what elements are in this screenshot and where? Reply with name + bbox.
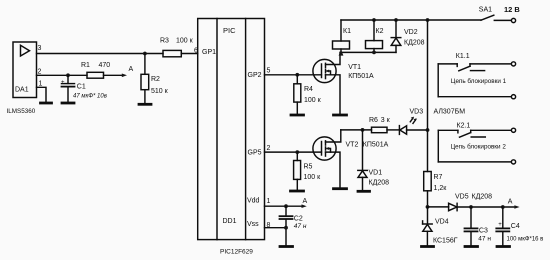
ground C3 (465, 245, 478, 248)
svg-text:C2: C2 (294, 215, 303, 222)
capacitor C1 (61, 75, 75, 101)
node C1 junction (66, 73, 70, 77)
svg-text:R6: R6 (369, 117, 378, 124)
svg-text:1: 1 (39, 80, 43, 87)
node regulator (426, 205, 430, 209)
svg-text:1: 1 (267, 198, 271, 205)
resistor R3 (163, 50, 181, 56)
svg-text:PIC12F629: PIC12F629 (220, 248, 253, 255)
node K2 bottom (372, 51, 376, 55)
svg-text:510 к: 510 к (151, 88, 169, 95)
svg-text:VT2: VT2 (346, 142, 359, 149)
resistor R5 (294, 152, 301, 190)
transistor VT2 (313, 130, 341, 188)
svg-text:R4: R4 (304, 86, 313, 93)
node C3 (469, 205, 473, 209)
label C2 47n (294, 215, 307, 230)
label C1 value (73, 84, 107, 100)
svg-text:47 мкФ* 10в: 47 мкФ* 10в (73, 93, 107, 99)
drain node arrow up (339, 50, 344, 56)
svg-text:R2: R2 (151, 76, 160, 83)
svg-text:АЛ307БМ: АЛ307БМ (434, 109, 466, 116)
ground VT1 source (334, 114, 347, 117)
transistor VT1 (313, 52, 340, 114)
ground VD1 (358, 190, 370, 193)
svg-text:R3: R3 (160, 37, 169, 44)
diode VD1 (358, 130, 368, 190)
label VT1 KP501A (348, 64, 374, 80)
ground VD4 (422, 245, 434, 248)
svg-text:Vss: Vss (247, 221, 259, 228)
node R4 junction (295, 73, 299, 77)
svg-text:12 В: 12 В (504, 5, 520, 14)
label VD1 KD208 (369, 170, 390, 187)
svg-text:3: 3 (38, 45, 42, 52)
wire Vdd to node A arrow (265, 205, 303, 207)
svg-text:100 к: 100 к (304, 97, 322, 104)
ground R5 (291, 190, 304, 193)
op-amp DA1 IR receiver box (13, 42, 37, 98)
label R4 100k (304, 86, 322, 104)
label R3 100k (160, 37, 194, 44)
switch SA1 (481, 15, 516, 22)
wire K2.1 left side (437, 130, 439, 162)
label C3 47n (478, 228, 491, 243)
label R7 1.2k (434, 174, 448, 192)
ground C1 (62, 102, 74, 105)
wire K2.1 bottom (438, 161, 511, 163)
wire 12V branch vertical (427, 20, 429, 172)
svg-text:R5: R5 (304, 164, 313, 171)
svg-text:VD5: VD5 (455, 193, 469, 200)
svg-text:+: + (498, 222, 502, 228)
node VD1 junction (361, 128, 365, 132)
svg-text:100 к: 100 к (304, 174, 322, 181)
node R5 junction (295, 150, 299, 154)
svg-text:2: 2 (267, 145, 271, 152)
svg-text:100 мкФ*16 в: 100 мкФ*16 в (507, 236, 544, 242)
capacitor C2 (280, 206, 293, 246)
svg-text:КП501А: КП501А (348, 73, 374, 80)
relay coil K1 (333, 20, 350, 52)
node VD3 to 12V branch (426, 128, 430, 132)
svg-text:КП501А: КП501А (363, 142, 389, 149)
resistor R4 (294, 75, 301, 114)
svg-text:КС156Г: КС156Г (433, 238, 458, 245)
node C4 (501, 205, 505, 209)
label VT2 KP501A (346, 142, 389, 149)
label VD2 KD208 (404, 29, 425, 47)
terminal K1.1 top (511, 62, 515, 66)
label R5 100k (304, 164, 322, 182)
node 12V branch (426, 18, 430, 22)
svg-text:100 к: 100 к (176, 37, 194, 44)
resistor R6 (372, 127, 388, 133)
contact K1.1 (438, 64, 511, 71)
ground R2 (139, 103, 151, 106)
wire relay bottom rail (341, 51, 396, 53)
wire GP2 to VT1 gate (265, 74, 322, 76)
ground R4 (291, 114, 304, 117)
svg-text:КД208: КД208 (369, 180, 390, 187)
svg-text:VD3: VD3 (410, 109, 424, 116)
label C4 value (507, 223, 544, 243)
svg-text:Цепь блокировки 1: Цепь блокировки 1 (451, 77, 507, 85)
ground VT2 source (334, 187, 347, 190)
svg-text:К1.1: К1.1 (456, 53, 470, 60)
node C2 top (284, 204, 288, 208)
svg-text:Цепь блокировки 2: Цепь блокировки 2 (451, 143, 507, 151)
wire R3 to PIC pin6 (181, 53, 197, 55)
svg-text:A: A (508, 198, 513, 205)
node A arrow left (122, 74, 127, 78)
svg-text:DA1: DA1 (15, 87, 29, 94)
svg-text:2: 2 (38, 69, 42, 76)
wire GP5 to VT2 gate (265, 151, 322, 153)
relay coil K2 (366, 20, 383, 52)
node R2 junction (143, 52, 147, 56)
resistor R2 (141, 54, 149, 104)
capacitor C4 (496, 207, 509, 246)
wire K1.1 left side (437, 64, 439, 97)
svg-text:ILMS5360: ILMS5360 (7, 108, 36, 115)
IC DD1 PIC12F629 box (198, 19, 265, 240)
wire DA1 pin1 down (37, 87, 47, 102)
wire Vss to C2 (265, 227, 287, 229)
svg-text:R7: R7 (434, 174, 443, 181)
terminal K2.1 top (511, 128, 515, 132)
svg-text:1,2к: 1,2к (434, 185, 448, 192)
terminal K1.1 bottom (511, 95, 515, 99)
node A arrow Vdd (302, 204, 307, 208)
svg-text:К2: К2 (376, 28, 384, 35)
diode VD2 (391, 20, 401, 52)
svg-text:VT1: VT1 (348, 64, 361, 71)
node A arrow right (514, 205, 519, 209)
svg-text:47 н: 47 н (478, 236, 491, 243)
ground C4 (497, 245, 510, 248)
svg-text:GP2: GP2 (248, 72, 262, 79)
wire DA1 pin3 to R3 (37, 53, 164, 55)
wire K1.1 bottom (438, 96, 511, 98)
svg-text:VD1: VD1 (369, 170, 383, 177)
diode VD5 (428, 203, 516, 210)
svg-text:A: A (303, 198, 308, 205)
resistor R1 (87, 72, 104, 78)
svg-text:GP5: GP5 (248, 150, 262, 157)
svg-text:VD4: VD4 (435, 218, 449, 225)
capacitor C3 (465, 207, 478, 246)
label R2 510k (151, 76, 169, 95)
resistor R7 (424, 172, 432, 207)
wire R6 to VD3 (387, 129, 399, 131)
label VD4 KS156G (433, 218, 458, 244)
svg-text:3 к: 3 к (381, 117, 391, 124)
svg-text:SA1: SA1 (479, 6, 492, 13)
svg-text:DD1: DD1 (223, 218, 237, 225)
svg-text:GP1: GP1 (202, 49, 216, 56)
svg-text:A: A (129, 66, 134, 73)
svg-text:К1: К1 (343, 28, 351, 35)
svg-text:R1: R1 (81, 62, 90, 69)
svg-text:C4: C4 (511, 223, 520, 230)
ground DA1 pin1 (41, 102, 52, 105)
svg-text:C3: C3 (479, 228, 488, 235)
node VD2 top (394, 18, 398, 22)
LED VD3 (399, 117, 427, 135)
svg-text:PIC: PIC (223, 26, 236, 35)
wire +12V top rail (341, 19, 481, 21)
svg-text:VD2: VD2 (404, 29, 418, 36)
svg-text:Vdd: Vdd (247, 197, 260, 204)
wire R1 to node A arrow (104, 74, 123, 76)
wire VT2 drain to R6 (341, 129, 372, 131)
label R1 470 (81, 62, 110, 69)
svg-text:C1: C1 (77, 84, 86, 91)
svg-text:КД208: КД208 (404, 40, 425, 47)
contact K2.1 (438, 130, 511, 137)
node K2 top (372, 18, 376, 22)
terminal K2.1 bottom (511, 160, 515, 164)
svg-text:470: 470 (99, 62, 111, 69)
wire DA1 pin2 to R1 (37, 74, 88, 76)
svg-text:КД208: КД208 (472, 193, 493, 200)
svg-text:47 н: 47 н (294, 223, 307, 230)
node C2 Vss junction (284, 226, 288, 230)
ground C2 (280, 245, 293, 248)
zener VD4 (423, 207, 433, 246)
svg-text:К2.1: К2.1 (457, 122, 471, 129)
svg-text:+: + (61, 80, 65, 86)
label R6 3k (369, 117, 391, 124)
svg-text:5: 5 (267, 68, 271, 75)
label VD5 KD208 (455, 193, 492, 200)
